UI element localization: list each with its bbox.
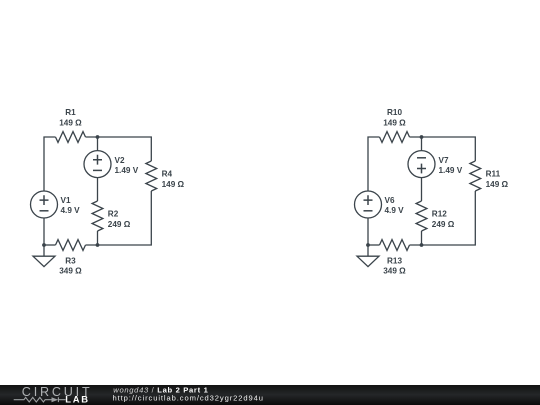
svg-text:149 Ω: 149 Ω — [486, 180, 509, 189]
svg-text:V7: V7 — [439, 156, 449, 165]
wire top-left corner to V6 — [368, 137, 380, 191]
junction node bottom mid R2 — [96, 243, 100, 247]
wire bottom left — [44, 244, 56, 246]
svg-text:R12: R12 — [432, 210, 447, 219]
resistor R11 — [470, 161, 481, 191]
footer bar — [0, 385, 540, 405]
ground at V1 negative node — [33, 245, 55, 267]
svg-text:R11: R11 — [486, 170, 501, 179]
resistor R3 — [56, 240, 86, 251]
wire top right to R4 — [86, 137, 152, 161]
ground at V6 negative node — [357, 245, 379, 267]
svg-text:149 Ω: 149 Ω — [59, 118, 82, 127]
voltage source V6 — [355, 191, 382, 218]
svg-text:149 Ω: 149 Ω — [162, 180, 185, 189]
wire R11 to bottom wire — [410, 191, 476, 245]
wire V6 to bottom-left corner — [367, 218, 369, 245]
CircuitLab logo schematic squiggle (resistor + diode) — [14, 397, 66, 402]
svg-text:249 Ω: 249 Ω — [432, 220, 455, 229]
wire V1 to bottom-left corner — [43, 218, 45, 245]
resistor R12 — [416, 201, 427, 231]
junction node bottom mid R12 — [420, 243, 424, 247]
resistor R4 — [146, 161, 157, 191]
svg-text:R2: R2 — [108, 210, 119, 219]
resistor R1 — [56, 132, 86, 143]
wire top-left corner to V1 — [44, 137, 56, 191]
wire top right to R11 — [410, 137, 476, 161]
resistor R10 — [380, 132, 410, 143]
svg-text:V6: V6 — [385, 196, 395, 205]
junction node bottom left V1 — [42, 243, 46, 247]
svg-text:4.9 V: 4.9 V — [385, 206, 405, 215]
resistor R2 — [92, 201, 103, 231]
wire V2-R2 link — [97, 178, 99, 201]
svg-text:R10: R10 — [387, 108, 402, 117]
svg-text:1.49 V: 1.49 V — [115, 166, 139, 175]
voltage source V7 — [408, 151, 435, 178]
svg-text:R1: R1 — [65, 108, 76, 117]
svg-text:R4: R4 — [162, 170, 173, 179]
junction node top mid V7 — [420, 135, 424, 139]
wire R2 bottom lead — [97, 231, 99, 245]
svg-text:V1: V1 — [61, 196, 71, 205]
resistor R13 — [380, 240, 410, 251]
svg-text:149 Ω: 149 Ω — [383, 118, 406, 127]
svg-text:R13: R13 — [387, 256, 402, 265]
svg-text:R3: R3 — [65, 256, 76, 265]
wire bottom left — [368, 244, 380, 246]
svg-text:349 Ω: 349 Ω — [383, 267, 406, 276]
wire V7-R12 link — [421, 178, 423, 201]
wire V7 top lead — [421, 137, 423, 151]
voltage source V2 — [84, 151, 111, 178]
wire R4 to bottom wire — [86, 191, 152, 245]
svg-text:LAB: LAB — [65, 393, 89, 404]
CircuitLab logo diode triangle — [52, 397, 59, 402]
junction node top mid V2 — [96, 135, 100, 139]
svg-text:349 Ω: 349 Ω — [59, 267, 82, 276]
wire V2 top lead — [97, 137, 99, 151]
svg-text:V2: V2 — [115, 156, 125, 165]
wire R12 bottom lead — [421, 231, 423, 245]
svg-text:1.49 V: 1.49 V — [439, 166, 463, 175]
voltage source V1 — [31, 191, 58, 218]
svg-text:http://circuitlab.com/cd32ygr2: http://circuitlab.com/cd32ygr22d94u — [113, 393, 264, 402]
junction node bottom left V6 — [366, 243, 370, 247]
svg-text:249 Ω: 249 Ω — [108, 220, 131, 229]
svg-text:4.9 V: 4.9 V — [61, 206, 81, 215]
